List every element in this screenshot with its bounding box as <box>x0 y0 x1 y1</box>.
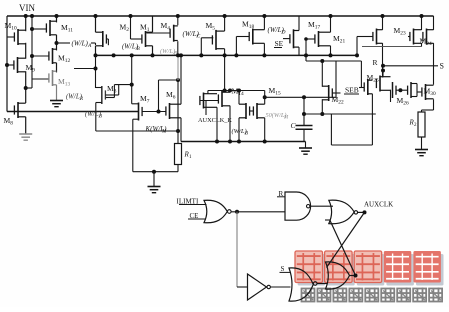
wire node B down from rail2 to M3 block <box>95 55 97 88</box>
wire (W/L)A node <box>57 42 71 44</box>
gate NOR1 <box>204 200 227 223</box>
wire M26a source <box>371 94 373 114</box>
transistor M18 <box>249 29 264 45</box>
ground under M13 <box>50 101 63 107</box>
shared gate wire M19-M14 <box>200 100 219 102</box>
svg-text:SE: SE <box>275 39 284 48</box>
svg-text:(W/L): (W/L) <box>160 48 175 55</box>
mirror gate tie <box>396 89 408 91</box>
wire M23 drain to rail <box>421 16 423 30</box>
gate OR1 <box>329 200 354 224</box>
M18 gate lead <box>236 36 249 38</box>
svg-text:AUXCLK_K: AUXCLK_K <box>198 117 232 124</box>
wire M5 source down through rail2 <box>224 49 226 91</box>
wire K(W/L)M node <box>96 130 178 132</box>
transistor M25 <box>376 76 390 92</box>
wire node up column <box>335 61 337 97</box>
watermark red characters <box>298 254 326 286</box>
wire gate column x32 <box>31 16 33 88</box>
AUXCLK_K tick <box>205 101 207 116</box>
transistor M11 <box>46 20 56 36</box>
svg-text:SEB: SEB <box>345 86 359 95</box>
mirror pair right channel <box>392 82 394 98</box>
wire M2 source to rail2 <box>95 46 97 56</box>
capacitor C plates <box>296 125 313 127</box>
wire mirror column rail2 to M7 drain <box>131 55 133 103</box>
M30 gate lead <box>417 91 422 93</box>
cross wire A <box>327 212 365 267</box>
wire M2 drain to rail <box>95 16 97 32</box>
wire node down to mirror node <box>264 91 266 105</box>
svg-text:B: B <box>99 115 102 120</box>
wire M11 drain to rail <box>56 16 58 22</box>
wire M12-M13 <box>56 63 58 73</box>
wire node A to M13 gate column <box>26 87 32 89</box>
M7 gate junction on bias rail <box>157 110 161 114</box>
gate NAND <box>285 192 311 220</box>
wire M8 source to ground <box>25 117 27 134</box>
wire M24 drain to rail end <box>433 16 435 30</box>
wire M22 source down <box>321 99 323 114</box>
wire bend to R2 <box>422 109 434 111</box>
watermark gray slogan characters <box>302 289 315 302</box>
transistor M5 <box>212 30 224 50</box>
wire OR1 bottom input <box>325 219 331 221</box>
wire M7 source down <box>132 119 134 172</box>
wire M11 gate lead <box>32 28 46 30</box>
wire down to R1 <box>177 80 179 144</box>
node wire to right <box>265 96 336 98</box>
SE underline <box>274 47 282 49</box>
wire bottom loop <box>133 171 178 173</box>
transistor M19 <box>200 93 217 109</box>
wire OR1 output <box>358 211 365 213</box>
wire M30 source down <box>433 99 435 110</box>
loop bottom <box>331 144 372 146</box>
svg-text:M: M <box>283 116 289 121</box>
M17 gate lead to rail2 <box>306 38 315 40</box>
small L wire <box>113 85 115 98</box>
wire lower node line <box>306 60 361 62</box>
wire bias tap up <box>158 80 160 112</box>
transistor M30 <box>422 84 434 100</box>
SEB wire <box>359 87 364 89</box>
gate NOR2 <box>289 268 313 301</box>
second rail (W/L)B <box>95 54 357 56</box>
transistor M15 <box>253 103 264 119</box>
transistor M3 <box>102 86 106 104</box>
transistor M8 <box>14 102 25 118</box>
wire M25 source <box>390 90 392 102</box>
wire M11 source to node (W/L)A <box>56 35 58 51</box>
wire M6 drain to rail2 <box>180 55 182 104</box>
transistor M22 <box>322 85 332 101</box>
wire M10 source down <box>25 43 27 59</box>
wire M19 drain riser <box>207 91 209 95</box>
ILIMTI underline wire <box>179 204 207 206</box>
wire M3 source down to K wire <box>95 103 97 132</box>
svg-text:S: S <box>440 62 444 71</box>
wire feedback line y114 <box>304 113 376 115</box>
svg-text:B: B <box>245 132 248 137</box>
wire NOR1 output <box>231 211 285 213</box>
wire M1 drain to rail <box>152 16 154 32</box>
M3 gate bend to mirror node <box>105 94 118 96</box>
wire M17 source to rail2 <box>330 46 332 56</box>
R underline wire <box>277 196 285 198</box>
transistor M23 <box>410 29 422 45</box>
resistor R1 <box>175 144 182 165</box>
wire M16 drain up <box>238 91 240 105</box>
svg-text:D: D <box>281 30 286 36</box>
svg-text:VIN: VIN <box>19 3 35 13</box>
wire M4 drain to rail <box>177 16 179 25</box>
svg-text:R: R <box>373 58 378 67</box>
wire M13 gate lead <box>32 78 49 80</box>
wire M23 source <box>421 43 423 47</box>
wire M1 source to rail2 <box>152 46 154 56</box>
transistor M16 <box>239 103 250 119</box>
wire left gate column <box>6 16 8 112</box>
wire M6 source to bottom rail <box>180 118 182 142</box>
ground right <box>415 150 428 156</box>
loop left vertical <box>330 114 332 145</box>
wire M19 source <box>216 107 218 141</box>
transistor M17 <box>315 31 331 47</box>
gray feedback wire <box>362 46 422 48</box>
wire drain join <box>382 71 384 78</box>
svg-text:AUXCLK: AUXCLK <box>364 201 393 209</box>
transistor M21 <box>373 29 383 45</box>
wire M22 drain <box>321 61 323 87</box>
transistor M7 diode connected <box>139 103 143 121</box>
VIN power rail <box>7 15 434 17</box>
wire M9 source to node <box>25 71 27 103</box>
wire M12 gate lead <box>32 55 49 57</box>
wire M17 drain to rail <box>330 16 332 32</box>
transistor M20 <box>290 29 299 48</box>
gate OR3 <box>326 262 350 289</box>
wire drop to M26a gate <box>360 61 362 88</box>
wire M20 drain to rail <box>298 16 300 31</box>
wire M14 drain <box>229 91 231 93</box>
CE underline wire <box>188 218 206 220</box>
M4 gate lead <box>147 32 171 34</box>
wire to ground stem <box>153 172 155 187</box>
M23 gate lead <box>408 36 410 38</box>
transistor M10 <box>7 36 14 38</box>
transistor M2 <box>96 31 107 47</box>
SE wire to M20 gate <box>283 38 290 40</box>
M5 gate lead <box>201 37 213 39</box>
gray drop from rail2 <box>177 55 179 80</box>
SEB underline <box>344 93 359 95</box>
loop right vertical <box>371 114 373 145</box>
wire NAND to OR1 <box>310 205 333 207</box>
ground bottom left <box>148 187 161 193</box>
transistor M9 <box>7 64 14 66</box>
wire M24 source to M30 drain <box>433 43 435 85</box>
ground under M8 <box>19 134 32 140</box>
wire M21 drain to rail <box>382 16 384 30</box>
wire M20 source to rail2 <box>298 47 300 55</box>
capacitor C wire <box>303 97 305 125</box>
wire M4 source to rail2 <box>177 41 179 55</box>
transistor M24 <box>423 29 434 45</box>
wire NOR2 to OR3 <box>317 283 327 285</box>
wire NOR1 to inverter <box>236 212 238 287</box>
wire M10 drain to rail <box>25 16 27 31</box>
wire S output <box>383 65 438 67</box>
svg-text:S: S <box>281 265 285 273</box>
transistor M1 <box>142 31 153 47</box>
wire M14 source <box>229 106 231 142</box>
transistor M4 <box>170 25 178 42</box>
wire M13 source to ground <box>56 85 58 100</box>
wire M16 source down <box>238 118 240 142</box>
wire R2 to ground <box>421 137 423 150</box>
cross wire B <box>330 220 356 276</box>
svg-text:C: C <box>197 34 201 40</box>
M2 gate diode tie <box>106 38 108 40</box>
wire M18 source to rail2 <box>263 43 265 55</box>
wire M21 source to node R <box>382 43 384 77</box>
wire M15 source down <box>264 118 266 142</box>
svg-text:R: R <box>79 97 83 102</box>
svg-text:A: A <box>87 43 92 49</box>
wire drain node across <box>208 90 265 92</box>
svg-text:M: M <box>161 130 167 135</box>
S underline wire <box>280 271 291 273</box>
svg-text:(W/L): (W/L) <box>72 40 89 48</box>
M1 gate lead to rail <box>131 38 142 40</box>
wire rail2 tick right <box>305 55 307 61</box>
bottom rail <box>181 141 306 143</box>
bias rail to M8/M7/M6 gates <box>7 111 139 113</box>
transistor M14 <box>218 91 230 107</box>
wire stub node B <box>74 68 96 70</box>
capacitor to rail <box>303 129 305 141</box>
wire M5 drain from rail <box>224 16 226 31</box>
M21 gate lead <box>357 36 373 38</box>
wire OR3 output <box>350 275 356 277</box>
gate tie M16 M15 <box>250 110 254 112</box>
inverter <box>248 274 267 300</box>
M22 gate lead <box>332 92 340 94</box>
wire bias tap horizontal <box>159 79 179 81</box>
ground mid <box>305 142 307 149</box>
resistor R2 <box>418 112 425 137</box>
transistor M26 <box>410 82 412 98</box>
wire R1 bottom <box>177 165 179 172</box>
wire inverter out <box>271 286 291 288</box>
wire M18 drain to rail <box>263 16 265 30</box>
transistor M6 <box>166 103 181 119</box>
transistor M13 <box>49 70 57 86</box>
transistor M26a <box>364 79 372 95</box>
transistor M12 <box>49 48 57 64</box>
